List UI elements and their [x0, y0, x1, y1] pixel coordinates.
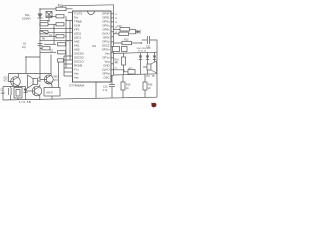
wire lower rail — [114, 74, 158, 75]
wire left input vertical — [39, 9, 41, 74]
speaker YD — [147, 64, 151, 70]
relay K1 box — [14, 88, 22, 99]
pin numbers right — [115, 14, 118, 34]
svg-text:VT1: VT1 — [4, 81, 9, 83]
svg-text:47μ: 47μ — [22, 47, 27, 49]
diode VD2 — [137, 30, 141, 34]
svg-text:9012: 9012 — [47, 82, 53, 85]
svg-text:Vss: Vss — [74, 76, 79, 80]
resistor R2 — [56, 15, 64, 18]
junction dots — [39, 8, 40, 9]
capacitor C11 — [142, 39, 148, 41]
logo bottom right — [151, 103, 156, 108]
capacitor C12 — [122, 46, 128, 51]
wire VT1 emitter — [17, 86, 19, 88]
resistor R10 — [56, 7, 66, 10]
IC right pin stubs — [111, 14, 114, 76]
wire left top rail — [3, 86, 26, 88]
diode VD3 — [25, 87, 27, 100]
capacitor C13 — [111, 75, 113, 85]
speaker B — [33, 79, 38, 85]
wire left edge — [2, 87, 4, 101]
IC U1 body — [73, 11, 112, 82]
resistor small box — [128, 70, 135, 75]
resistor R5 — [56, 35, 64, 38]
IC U2 KD box — [44, 88, 60, 97]
IC right pin labels — [102, 12, 111, 80]
wire left mid rail — [9, 73, 52, 75]
wire row6 — [40, 39, 73, 41]
wire top rail tick — [61, 6, 63, 9]
resistor R9 — [58, 51, 66, 54]
svg-text:12V: 12V — [1, 92, 6, 95]
wire VT1 base — [9, 74, 14, 82]
wire right bus — [113, 5, 115, 75]
svg-text:1k 1k 1k: 1k 1k 1k — [138, 51, 147, 53]
wire r-row2 — [114, 33, 120, 35]
resistor R13 — [122, 41, 132, 44]
svg-text:C10: C10 — [117, 25, 122, 28]
wire VT3 base — [26, 90, 35, 92]
diode VD5 — [147, 53, 149, 56]
wire bottom rail — [3, 97, 157, 100]
IC left pin labels — [74, 12, 85, 80]
resistor R14 vertical — [123, 53, 125, 57]
capacitor C6 — [38, 43, 43, 45]
wire row8 — [40, 47, 42, 49]
wire left bus x66 — [65, 16, 67, 68]
wire row2 — [48, 23, 56, 25]
IC notch — [88, 11, 95, 15]
resistor R11 — [120, 28, 130, 31]
crystal XT — [113, 46, 120, 51]
svg-text:R10: R10 — [58, 4, 63, 7]
wire row1 — [48, 15, 56, 17]
transistor VT2 — [44, 75, 53, 84]
svg-text:9C2: 9C2 — [4, 78, 9, 80]
wire row3 — [40, 27, 73, 29]
wire left bus x70 — [69, 20, 71, 60]
resistor R4 — [56, 23, 64, 26]
resistor R16 — [144, 74, 146, 82]
resistor R9b — [58, 59, 64, 62]
wire KD feed — [58, 60, 60, 88]
wire IC ground drop — [95, 82, 97, 98]
wire VT3 collector — [39, 85, 41, 87]
svg-text:CT7486AM: CT7486AM — [69, 84, 85, 88]
crystal B1 — [46, 12, 52, 18]
wire VT2 emitter — [50, 84, 53, 88]
svg-text:KD-9: KD-9 — [47, 91, 53, 95]
svg-text:150AH: 150AH — [22, 17, 31, 21]
wire r-row1 — [114, 28, 121, 30]
wire left outer bus — [63, 56, 65, 76]
resistor R15 — [122, 75, 124, 82]
svg-text:4.7μ: 4.7μ — [103, 89, 108, 92]
wire top VDD rail — [62, 5, 114, 6]
diode VD1 — [38, 14, 43, 19]
IC left pin stubs — [64, 12, 73, 76]
wire VT2 base — [40, 74, 47, 80]
svg-text:VT2: VT2 — [54, 79, 59, 82]
wire row1b — [66, 19, 73, 21]
resistor R12 — [119, 32, 129, 35]
svg-text:R13: R13 — [124, 39, 129, 42]
wire R17 feed — [114, 70, 129, 72]
resistor R3 — [40, 23, 48, 26]
svg-text:8Ω: 8Ω — [38, 80, 41, 83]
wire VT2 collector — [50, 74, 52, 76]
crystal B2 — [40, 31, 48, 34]
wire left low run — [26, 57, 40, 74]
wire row5 — [40, 35, 56, 37]
wire second top line — [40, 8, 73, 10]
wire row7 — [44, 43, 56, 45]
diode VD4 — [140, 53, 142, 56]
svg-text:17A 8B: 17A 8B — [19, 100, 31, 104]
wire crystal stub — [40, 18, 49, 21]
svg-text:YD: YD — [146, 75, 150, 78]
wire mid rail — [114, 52, 158, 53]
wire left bus x54 — [53, 24, 55, 44]
wire VT2 collector — [50, 55, 52, 74]
transistor VT3 — [32, 86, 42, 96]
svg-text:R14: R14 — [115, 60, 120, 62]
transistor VT1 — [11, 77, 21, 87]
wire row4 — [48, 31, 73, 33]
resistor R7 — [58, 43, 66, 46]
resistor R8 — [42, 47, 50, 50]
wire row9 — [40, 51, 56, 53]
svg-text:OSC: OSC — [103, 76, 109, 80]
wire VT1 collector — [17, 74, 19, 78]
capacitor C1 — [10, 87, 12, 89]
diode VD6 — [154, 53, 156, 56]
wire VT3 emitter — [39, 96, 41, 100]
svg-text:IC1: IC1 — [92, 44, 97, 48]
svg-text:VD4 VD5 VD6: VD4 VD5 VD6 — [137, 48, 152, 50]
wire U2 bottom stub — [51, 96, 53, 99]
wire r-row3 — [114, 42, 123, 44]
